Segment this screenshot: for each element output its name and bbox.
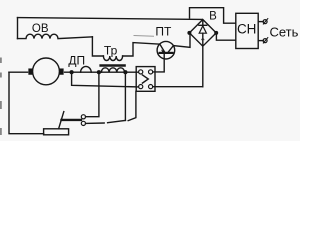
wire: box top-right pin to transistor base bbox=[153, 54, 164, 72]
wire: collector to bridge left corner bbox=[173, 32, 190, 47]
wire: rail branch over V label to SN box bbox=[190, 8, 236, 24]
transistor base bar bbox=[160, 52, 173, 54]
bridge diode: cathode bar bbox=[199, 24, 207, 26]
node: junction B (secondary left / pedal tap) bbox=[97, 70, 101, 74]
wire: main armature rail to contact box bbox=[65, 71, 139, 73]
svg-text:Сеть: Сеть bbox=[270, 24, 299, 39]
mains terminal lower circle with slash bbox=[263, 39, 267, 43]
mains terminal lower stub bbox=[258, 40, 263, 42]
node: junction A (left of DP) bbox=[70, 70, 74, 74]
wire: bridge minus output down to box row bbox=[202, 46, 204, 86]
transistor collector diagonal bbox=[168, 46, 173, 53]
voltage stabilizer box SN bbox=[236, 13, 258, 48]
motor M armature bbox=[33, 58, 60, 85]
pedal base rectangle bbox=[44, 129, 69, 135]
transformer core bar bbox=[101, 64, 125, 66]
wire: bottom run to pedal lower contact (with scan gap) bbox=[86, 120, 126, 123]
transistor emitter diagonal with arrow bbox=[160, 44, 165, 52]
svg-text:СН: СН bbox=[237, 22, 257, 37]
pedal contact lower circle bbox=[81, 121, 85, 125]
bridge diode: triangle bbox=[199, 26, 206, 33]
transformer Tr primary winding (3 scallops below line) bbox=[103, 56, 122, 61]
pin circle bottom-right bbox=[149, 85, 153, 89]
node: bridge left corner bbox=[187, 31, 191, 35]
wire: box bottom-right pin to bridge minus bbox=[153, 86, 203, 88]
mains terminal upper stub bbox=[258, 21, 263, 23]
pin circle bottom-left bbox=[139, 85, 143, 89]
motor left brush bbox=[29, 69, 33, 75]
wire: junction B down to pedal upper contact bbox=[86, 72, 99, 117]
node: bridge right corner bbox=[214, 31, 218, 35]
transformer Tr secondary winding (3 arcs above rail) bbox=[101, 68, 124, 72]
svg-text:ПТ: ПТ bbox=[155, 24, 172, 38]
chevron contact symbol bbox=[142, 75, 148, 83]
svg-text:В: В bbox=[209, 10, 217, 22]
bridge diode: top lead bbox=[202, 20, 204, 25]
bridge diode: bottom lead bbox=[202, 33, 204, 45]
bridge diode: lead arrow mark bbox=[201, 37, 205, 40]
wire: bridge plus output to SN box bbox=[216, 33, 235, 40]
svg-text:Тр: Тр bbox=[104, 43, 118, 57]
motor right brush bbox=[59, 69, 63, 75]
wire: DP bypass to contact box lower-left pin bbox=[72, 72, 139, 87]
wire: junction C down to bottom corner bbox=[124, 72, 126, 120]
connector block (contact box) bbox=[136, 67, 155, 92]
wire: top rail from left corner to bridge AC input bbox=[18, 18, 203, 20]
wire: left rail down to pedal bbox=[9, 72, 44, 134]
wire: contact box corner drop joining bottom run bbox=[128, 91, 136, 120]
wire: OV rail down to transformer primary bbox=[92, 37, 103, 56]
mains terminal upper circle with slash bbox=[263, 20, 267, 24]
scan edge marks bbox=[0, 58, 2, 136]
bridge rectifier V (diamond) bbox=[189, 20, 216, 47]
wire: primary right end up to transistor emitter bbox=[123, 43, 160, 56]
transistor PT bbox=[157, 41, 175, 59]
inductor DP (commutating winding, single arch) bbox=[81, 66, 92, 72]
node: junction C (secondary right) bbox=[123, 70, 127, 74]
pedal actuator diagonal bbox=[59, 112, 64, 129]
wire: left brush lead bbox=[9, 71, 28, 73]
wire: left vertical drop to field winding bbox=[17, 18, 19, 39]
pedal contact upper circle bbox=[81, 115, 85, 119]
svg-text:ОВ: ОВ bbox=[32, 23, 49, 35]
pin circle top-left bbox=[139, 70, 143, 74]
faint scan mark between Tr and PT bbox=[134, 35, 154, 38]
svg-text:ДП: ДП bbox=[68, 53, 85, 67]
pin circle top-right bbox=[149, 70, 153, 74]
pedal switch blade bbox=[62, 119, 82, 121]
inductor OV (field winding) with 4 arcs bbox=[18, 34, 93, 38]
